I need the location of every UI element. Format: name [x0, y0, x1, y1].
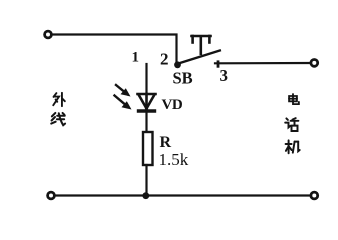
contact 3 wire to right terminal	[215, 62, 310, 64]
LED light arrow upper	[116, 85, 131, 97]
hanzi hua (speech)	[285, 118, 298, 131]
wire resistor to bottom	[145, 165, 147, 195]
terminal bottom-right	[311, 192, 318, 199]
svg-text:SB: SB	[173, 69, 193, 88]
pushbutton actuator	[192, 36, 211, 54]
contact 3 tick	[217, 62, 220, 67]
hanzi dian (electric)	[289, 94, 299, 104]
hanzi xian (line)	[51, 113, 65, 125]
svg-text:3: 3	[220, 66, 229, 85]
terminal bottom-left	[48, 192, 55, 199]
wire top-left horizontal	[52, 35, 177, 62]
svg-text:2: 2	[160, 50, 169, 69]
hanzi wai (outer)	[53, 93, 65, 106]
svg-text:VD: VD	[162, 97, 183, 113]
wire LED to resistor	[145, 111, 147, 132]
switch SB blade	[178, 51, 220, 64]
svg-text:R: R	[160, 134, 172, 151]
LED light arrow lower	[115, 96, 132, 110]
LED VD symbol	[138, 94, 156, 111]
svg-text:1: 1	[132, 50, 140, 66]
contact 1 wire down to LED	[145, 64, 147, 93]
wire bottom	[55, 194, 310, 196]
bottom junction dot	[142, 192, 149, 199]
svg-text:1.5k: 1.5k	[159, 150, 189, 169]
terminal top-left	[45, 31, 52, 38]
resistor R body	[143, 132, 153, 165]
terminal top-right	[311, 60, 318, 67]
node 2 junction dot	[174, 61, 181, 68]
hanzi ji (machine)	[286, 140, 300, 153]
